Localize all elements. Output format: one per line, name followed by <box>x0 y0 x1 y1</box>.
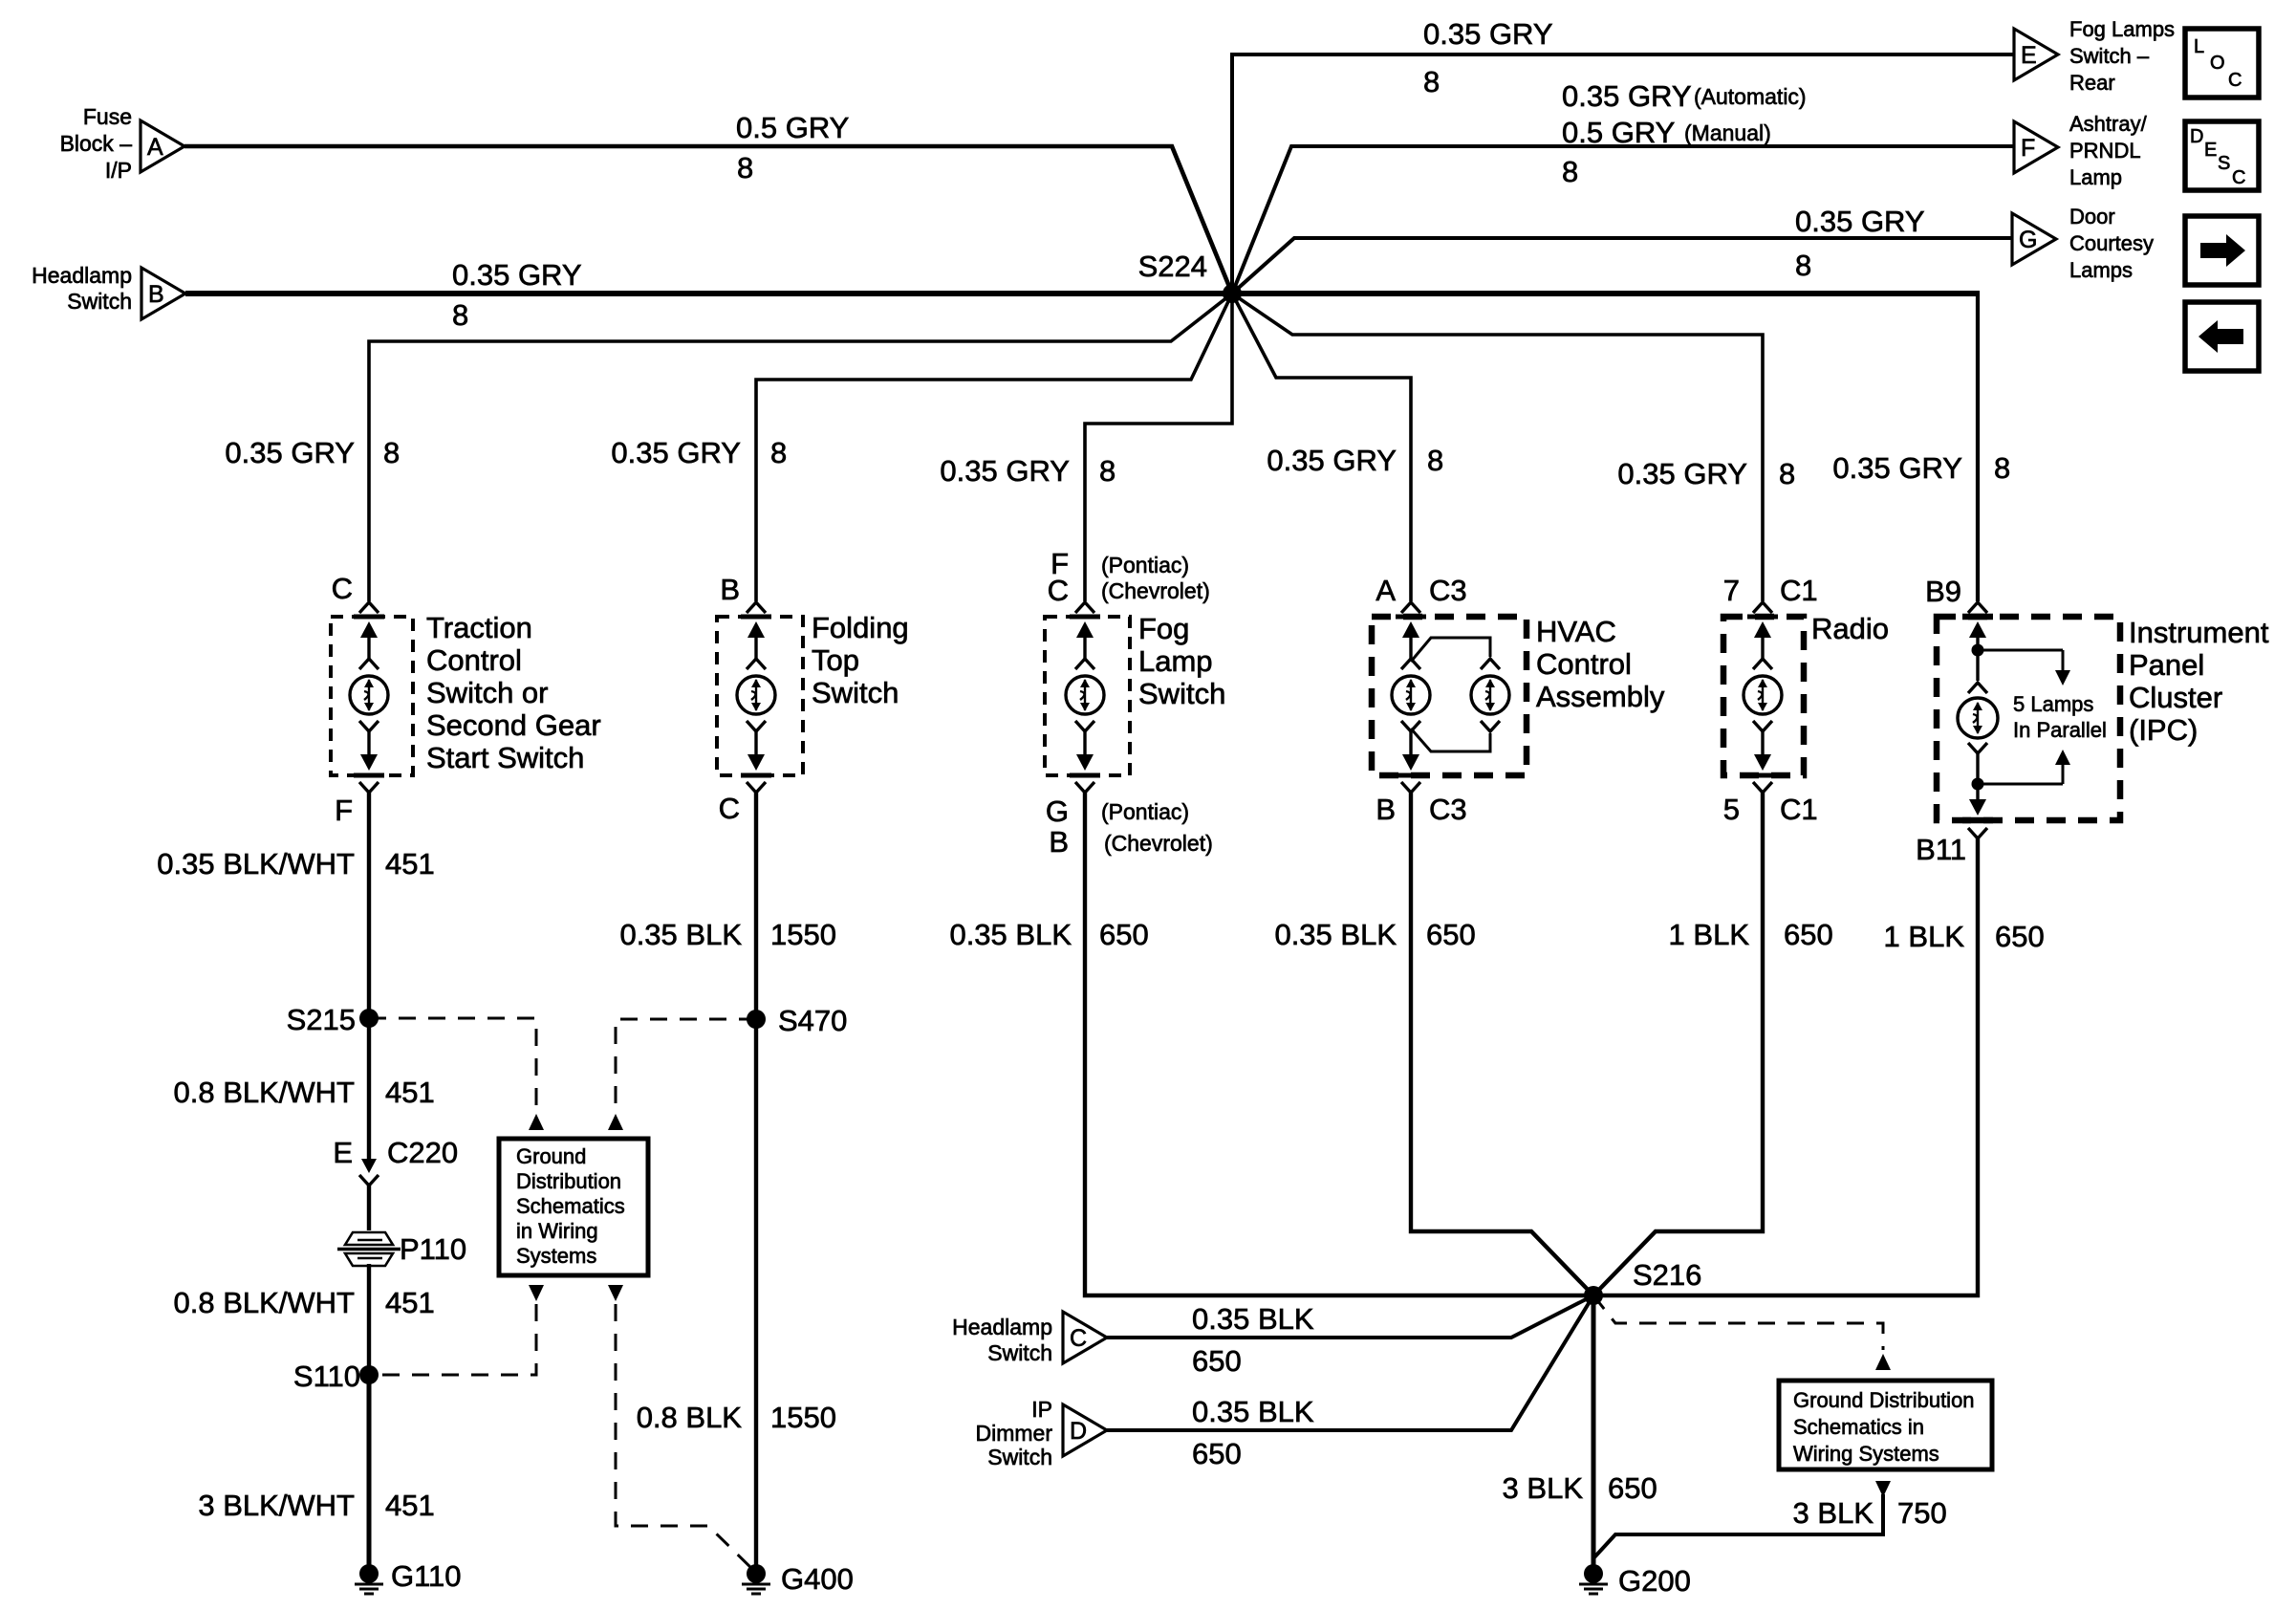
svg-text:Lamp: Lamp <box>1138 644 1213 678</box>
svg-text:650: 650 <box>1099 918 1149 951</box>
svg-text:Traction: Traction <box>426 611 532 644</box>
left-arrow reference box <box>2185 302 2259 371</box>
svg-text:0.35 GRY: 0.35 GRY <box>611 436 741 469</box>
svg-text:Ashtray/: Ashtray/ <box>2069 112 2148 136</box>
svg-text:8: 8 <box>452 298 468 332</box>
right-arrow reference box <box>2185 216 2259 285</box>
svg-text:0.8 BLK: 0.8 BLK <box>637 1401 743 1434</box>
wire: 0.35 BLK 650 from IP Dimmer Switch D to S216 <box>1107 1295 1593 1470</box>
svg-text:5: 5 <box>1723 793 1740 826</box>
svg-text:Switch: Switch <box>987 1340 1052 1365</box>
svg-text:S110: S110 <box>293 1360 360 1393</box>
svg-text:8: 8 <box>1099 454 1116 488</box>
svg-text:0.35 GRY: 0.35 GRY <box>1562 79 1692 113</box>
svg-text:8: 8 <box>383 436 400 469</box>
svg-text:C220: C220 <box>387 1136 458 1169</box>
svg-text:C3: C3 <box>1429 793 1467 826</box>
svg-text:Block –: Block – <box>60 131 133 156</box>
svg-text:Systems: Systems <box>516 1244 596 1268</box>
connector C (Headlamp Switch, lower) <box>952 1312 1107 1365</box>
svg-text:(Automatic): (Automatic) <box>1694 84 1807 109</box>
svg-text:B: B <box>148 281 164 308</box>
svg-text:C1: C1 <box>1780 793 1818 826</box>
svg-text:0.5 GRY: 0.5 GRY <box>1562 116 1675 149</box>
svg-text:8: 8 <box>1994 451 2010 485</box>
svg-text:0.35 GRY: 0.35 GRY <box>1267 444 1397 477</box>
wire: 3 BLK 650 from S216 to ground G200 <box>1503 1295 1657 1565</box>
wire A: 0.5 GRY 8 from Fuse Block to splice S224 <box>184 111 1232 294</box>
svg-text:in Wiring: in Wiring <box>516 1219 598 1243</box>
svg-text:451: 451 <box>385 1489 435 1522</box>
svg-text:0.35 GRY: 0.35 GRY <box>1617 457 1747 490</box>
svg-text:P110: P110 <box>400 1232 466 1266</box>
svg-text:0.35 BLK/WHT: 0.35 BLK/WHT <box>157 847 355 881</box>
svg-text:C: C <box>1048 574 1069 607</box>
svg-text:Schematics in: Schematics in <box>1793 1415 1924 1439</box>
svg-text:Lamps: Lamps <box>2069 258 2133 282</box>
svg-text:A: A <box>147 134 163 161</box>
svg-text:3 BLK/WHT: 3 BLK/WHT <box>198 1489 355 1522</box>
wire segment from C220 to grommet P110 <box>367 1186 371 1230</box>
svg-text:0.35 BLK: 0.35 BLK <box>619 918 742 951</box>
svg-text:8: 8 <box>1562 155 1578 188</box>
pin F (Traction Control Switch) <box>335 782 379 827</box>
wire G: 0.35 GRY 8 from S224 to Door Courtesy Lamps <box>1232 205 2012 294</box>
svg-text:0.35 GRY: 0.35 GRY <box>1423 17 1553 51</box>
svg-text:G400: G400 <box>781 1562 854 1596</box>
lamp switch: Folding Top Switch <box>717 611 909 775</box>
wire F: 0.35 GRY (Automatic) / 0.5 GRY (Manual) 8 from S224 to Ashtray/PRNDL Lamp <box>1232 79 2014 294</box>
wire: 1 BLK 650 from IPC pin B11 to S216 <box>1593 838 2045 1295</box>
wire: 0.35 BLK 650 from HVAC pin B C3 to S216 <box>1274 793 1593 1295</box>
svg-text:451: 451 <box>385 1076 435 1109</box>
svg-text:Switch –: Switch – <box>2069 44 2150 68</box>
svg-text:0.8 BLK/WHT: 0.8 BLK/WHT <box>174 1076 356 1109</box>
svg-text:Door: Door <box>2069 205 2115 228</box>
svg-text:1 BLK: 1 BLK <box>1884 920 1965 953</box>
wire: 0.8 BLK/WHT 451 from S215 to connector C220 pin E <box>174 1018 435 1162</box>
connector D (IP Dimmer Switch) <box>976 1397 1108 1469</box>
wire: 0.35 BLK/WHT 451 from pin F to S215 <box>157 793 434 1018</box>
svg-text:Start Switch: Start Switch <box>426 741 584 774</box>
wire B: 0.35 GRY 8 trunk from Headlamp Switch to S224 <box>185 258 1232 332</box>
svg-text:(IPC): (IPC) <box>2129 713 2198 747</box>
dashed reference from S216 to Ground Distribution box (right) <box>1593 1295 1891 1370</box>
pin B (Folding Top Switch) <box>720 573 766 613</box>
svg-text:IP: IP <box>1031 1397 1052 1422</box>
svg-text:5 Lamps: 5 Lamps <box>2013 692 2093 716</box>
wire: 0.35 BLK 1550 from pin C to S470 <box>619 793 836 1019</box>
svg-text:8: 8 <box>1795 249 1811 282</box>
wire: 3 BLK 750 from Ground Distribution box to G200 <box>1593 1481 1947 1558</box>
svg-text:S215: S215 <box>287 1003 356 1036</box>
svg-text:650: 650 <box>1784 918 1833 951</box>
splice S224 <box>1138 250 1242 303</box>
wire: 0.35 GRY 8 from S224 to Folding Top Switch pin B <box>611 294 1232 601</box>
svg-text:C: C <box>719 792 740 825</box>
svg-text:S216: S216 <box>1633 1258 1701 1292</box>
svg-text:A: A <box>1375 574 1396 607</box>
svg-text:F: F <box>2021 135 2035 162</box>
pin C (Folding Top Switch) <box>719 782 766 825</box>
wire: 0.35 GRY 8 from S224 to Radio pin 7 C1 <box>1232 294 1795 601</box>
pin B9 (Instrument Panel Cluster) <box>1925 575 1987 613</box>
svg-text:Folding: Folding <box>812 611 909 644</box>
svg-text:Cluster: Cluster <box>2129 681 2222 714</box>
svg-text:Distribution: Distribution <box>516 1169 621 1193</box>
pin 5 C1 (Radio) <box>1723 782 1818 826</box>
svg-text:Ground: Ground <box>516 1144 586 1168</box>
svg-text:Switch: Switch <box>812 676 899 709</box>
svg-text:750: 750 <box>1897 1496 1947 1530</box>
wire: 0.8 BLK/WHT 451 from P110 to S110 <box>174 1264 435 1375</box>
LOC reference box <box>2185 29 2259 98</box>
wire: 0.8 BLK 1550 from S470 to ground G400 <box>637 1019 836 1565</box>
svg-text:F: F <box>335 794 353 827</box>
lamp switch: Fog Lamp Switch <box>1045 612 1225 775</box>
svg-text:0.35 BLK: 0.35 BLK <box>949 918 1072 951</box>
wire E: 0.35 GRY 8 from S224 up to Fog Lamps Switch - Rear <box>1232 17 2014 294</box>
dashed reference from S215 to Ground Distribution box <box>369 1018 544 1130</box>
connector B (Headlamp Switch) <box>32 263 185 319</box>
connector A (Fuse Block - I/P) <box>60 104 184 183</box>
svg-text:3 BLK: 3 BLK <box>1503 1471 1584 1505</box>
svg-text:Assembly: Assembly <box>1536 680 1665 713</box>
wire: 0.35 GRY 8 from S224 to Instrument Panel Cluster pin B9 <box>1232 291 2010 601</box>
ground G200 <box>1579 1564 1691 1598</box>
lamp block: Instrument Panel Cluster (IPC), 5 lamps in parallel <box>1937 616 2269 820</box>
svg-text:C: C <box>2228 70 2242 91</box>
splice S216 <box>1584 1258 1701 1305</box>
svg-text:Rear: Rear <box>2069 71 2115 95</box>
svg-text:G: G <box>1046 794 1069 828</box>
svg-text:(Chevrolet): (Chevrolet) <box>1104 831 1213 856</box>
svg-text:G200: G200 <box>1618 1564 1691 1598</box>
svg-text:Headlamp: Headlamp <box>952 1315 1052 1339</box>
wire: 1 BLK 650 from Radio pin 5 C1 to S216 <box>1593 793 1833 1295</box>
Ground Distribution Schematics in Wiring Systems box (right) <box>1779 1381 1992 1469</box>
svg-text:S470: S470 <box>778 1004 847 1037</box>
svg-text:HVAC: HVAC <box>1536 615 1616 648</box>
svg-text:E: E <box>2204 140 2217 161</box>
svg-text:650: 650 <box>1608 1471 1657 1505</box>
wire: 0.35 BLK 650 from Fog Lamp Switch pin G/B to S216 <box>949 793 1593 1295</box>
svg-text:Switch or: Switch or <box>426 676 548 709</box>
ground G110 <box>355 1559 462 1594</box>
svg-text:0.8 BLK/WHT: 0.8 BLK/WHT <box>174 1286 356 1319</box>
connector F (Ashtray/PRNDL Lamp) <box>2014 112 2148 189</box>
wire: 0.35 GRY 8 from S224 to HVAC Control Assembly pin A C3 <box>1232 294 1443 601</box>
connector C220 pin E (in-line connector) <box>333 1136 458 1186</box>
svg-text:G110: G110 <box>391 1559 462 1593</box>
svg-text:In Parallel: In Parallel <box>2013 718 2107 742</box>
svg-text:Schematics: Schematics <box>516 1194 625 1218</box>
svg-text:D: D <box>1070 1418 1087 1445</box>
svg-text:0.35 GRY: 0.35 GRY <box>940 454 1070 488</box>
svg-text:1550: 1550 <box>770 918 836 951</box>
svg-text:650: 650 <box>1426 918 1476 951</box>
grommet P110 <box>337 1232 466 1266</box>
pin G (Pontiac) / B (Chevrolet) (Fog Lamp Switch) <box>1046 782 1213 859</box>
svg-text:L: L <box>2194 36 2204 57</box>
splice S215 <box>287 1003 379 1036</box>
svg-text:(Pontiac): (Pontiac) <box>1101 799 1189 824</box>
svg-text:Switch: Switch <box>1138 677 1225 710</box>
connector G (Door Courtesy Lamps) <box>2012 205 2154 282</box>
svg-text:Dimmer: Dimmer <box>976 1421 1053 1446</box>
splice S110 <box>293 1360 379 1393</box>
svg-text:E: E <box>333 1136 353 1169</box>
svg-text:8: 8 <box>1779 457 1795 490</box>
svg-text:(Pontiac): (Pontiac) <box>1101 553 1189 577</box>
svg-text:C: C <box>2232 167 2245 188</box>
svg-text:Switch: Switch <box>67 289 132 314</box>
pin C (Traction Control Switch) <box>332 572 379 613</box>
wire: 0.35 BLK 650 from Headlamp Switch C to S216 <box>1107 1295 1593 1378</box>
svg-text:0.5 GRY: 0.5 GRY <box>736 111 849 144</box>
svg-text:B: B <box>1375 793 1396 826</box>
lamp: Radio illumination <box>1723 612 1889 775</box>
svg-text:(Chevrolet): (Chevrolet) <box>1101 578 1210 603</box>
svg-text:Control: Control <box>1536 647 1632 681</box>
svg-text:Top: Top <box>812 643 859 677</box>
pin 7 C1 (Radio) <box>1723 574 1818 613</box>
svg-text:451: 451 <box>385 1286 435 1319</box>
svg-text:Switch: Switch <box>987 1445 1052 1469</box>
dashed reference from Ground Distribution box to G400 <box>608 1285 753 1570</box>
dashed reference from Ground Distribution box to S110 <box>369 1283 544 1375</box>
svg-text:0.35 GRY: 0.35 GRY <box>1795 205 1925 238</box>
Ground Distribution Schematics in Wiring Systems box (left) <box>499 1139 648 1275</box>
svg-text:Control: Control <box>426 643 522 677</box>
svg-text:Instrument: Instrument <box>2129 616 2269 649</box>
svg-text:I/P: I/P <box>105 158 132 183</box>
svg-text:650: 650 <box>1995 920 2045 953</box>
svg-text:7: 7 <box>1723 574 1740 607</box>
svg-text:1550: 1550 <box>770 1401 836 1434</box>
svg-text:S224: S224 <box>1138 250 1207 283</box>
svg-text:Lamp: Lamp <box>2069 165 2122 189</box>
svg-text:8: 8 <box>737 151 753 185</box>
wire: 0.35 GRY 8 from S224 to Traction Control Switch pin C <box>225 294 1232 601</box>
svg-text:C: C <box>1070 1325 1087 1352</box>
svg-text:D: D <box>2190 126 2203 147</box>
svg-text:C1: C1 <box>1780 574 1818 607</box>
svg-text:Panel: Panel <box>2129 648 2204 682</box>
wire: 0.35 GRY 8 from S224 to Fog Lamp Switch pin F/C <box>940 294 1232 601</box>
svg-text:8: 8 <box>1427 444 1443 477</box>
svg-text:1 BLK: 1 BLK <box>1669 918 1750 951</box>
pin A C3 (HVAC Control Assembly) <box>1375 574 1466 613</box>
svg-text:S: S <box>2218 153 2230 174</box>
pin F (Pontiac) / C (Chevrolet) (Fog Lamp Switch) <box>1048 547 1210 613</box>
svg-text:0.35 BLK: 0.35 BLK <box>1192 1302 1314 1336</box>
svg-text:650: 650 <box>1192 1437 1242 1470</box>
lamp switch: Traction Control Switch or Second Gear Start Switch <box>331 611 601 775</box>
svg-text:Ground Distribution: Ground Distribution <box>1793 1388 1975 1412</box>
svg-text:Fog: Fog <box>1138 612 1189 645</box>
svg-text:G: G <box>2019 227 2037 253</box>
svg-text:3 BLK: 3 BLK <box>1793 1496 1874 1530</box>
svg-text:451: 451 <box>385 847 435 881</box>
svg-text:C: C <box>332 572 353 605</box>
svg-text:PRNDL: PRNDL <box>2069 139 2141 163</box>
svg-text:Radio: Radio <box>1811 612 1889 645</box>
svg-text:Fog Lamps: Fog Lamps <box>2069 17 2175 41</box>
svg-text:0.35 BLK: 0.35 BLK <box>1192 1395 1314 1428</box>
svg-text:Second Gear: Second Gear <box>426 708 601 742</box>
svg-text:C3: C3 <box>1429 574 1467 607</box>
svg-text:Wiring Systems: Wiring Systems <box>1793 1442 1939 1466</box>
svg-text:0.35 GRY: 0.35 GRY <box>1832 451 1962 485</box>
lamp assembly: HVAC Control Assembly (two lamps in parallel) <box>1372 615 1665 775</box>
pin B11 (Instrument Panel Cluster) <box>1916 828 1987 866</box>
svg-text:B: B <box>720 573 740 606</box>
svg-text:650: 650 <box>1192 1344 1242 1378</box>
svg-text:Courtesy: Courtesy <box>2069 231 2154 255</box>
svg-text:O: O <box>2210 53 2225 74</box>
svg-text:8: 8 <box>1423 65 1440 98</box>
svg-text:B9: B9 <box>1925 575 1961 608</box>
svg-text:(Manual): (Manual) <box>1684 120 1771 145</box>
connector E (Fog Lamps Switch - Rear) <box>2014 17 2175 95</box>
svg-text:0.35 BLK: 0.35 BLK <box>1274 918 1397 951</box>
DESC reference box <box>2185 121 2259 190</box>
svg-text:0.35 GRY: 0.35 GRY <box>452 258 582 292</box>
wire: 3 BLK/WHT 451 from S110 to ground G110 <box>198 1375 434 1565</box>
dashed reference from S470 to Ground Distribution box <box>608 1019 756 1130</box>
svg-text:B: B <box>1049 825 1069 859</box>
svg-text:0.35 GRY: 0.35 GRY <box>225 436 355 469</box>
splice S470 <box>747 1004 847 1037</box>
pin B C3 (HVAC Control Assembly) <box>1375 782 1466 826</box>
svg-text:B11: B11 <box>1916 833 1966 866</box>
svg-text:Headlamp: Headlamp <box>32 263 132 288</box>
svg-text:Fuse: Fuse <box>83 104 132 129</box>
svg-text:E: E <box>2021 42 2037 69</box>
svg-text:8: 8 <box>770 436 787 469</box>
ground G400 <box>742 1562 854 1596</box>
